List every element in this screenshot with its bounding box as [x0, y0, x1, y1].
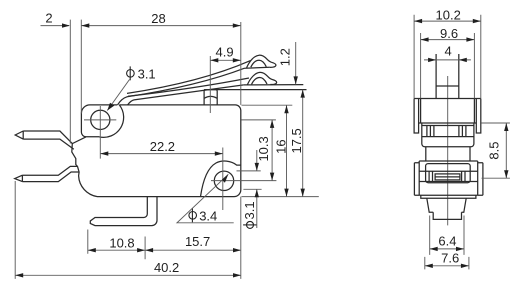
pivot center reference line L4	[242, 119, 276, 121]
hole C2 top tangent stub	[237, 170, 261, 172]
hole C2 centerlines	[211, 148, 276, 211]
dimension 8.5	[482, 123, 510, 178]
svg-text:8.5: 8.5	[487, 142, 502, 160]
plunger	[204, 90, 217, 106]
right view plunger	[436, 54, 459, 99]
lever pressed top line	[128, 78, 249, 96]
lever free bottom line	[118, 68, 245, 105]
right view block B	[433, 212, 461, 219]
dimension 4.9	[210, 22, 241, 113]
hole C2 bottom tangent stub	[243, 188, 261, 190]
right view top band	[414, 99, 481, 134]
dimension 9.6	[421, 26, 475, 98]
dimension 1.2	[278, 42, 298, 84]
right view block A	[427, 198, 466, 212]
lever tip curl upper	[245, 55, 276, 68]
dimension 16	[274, 105, 289, 196]
svg-text:3.1: 3.1	[138, 67, 156, 82]
dimension 40.2	[15, 181, 241, 279]
svg-text:4: 4	[444, 44, 451, 59]
label phi3.1 pivot	[107, 66, 155, 110]
lever top reference line L1	[244, 84, 304, 86]
svg-text:15.7: 15.7	[185, 234, 210, 249]
dimension phi3.1 hole C2	[242, 150, 259, 228]
dimension 2	[41, 11, 82, 144]
svg-text:7.6: 7.6	[441, 251, 459, 266]
dimension 7.6	[425, 251, 469, 270]
lever tip curl lower	[247, 72, 276, 85]
dimension 22.2	[100, 139, 223, 156]
svg-text:10.2: 10.2	[436, 8, 461, 23]
pivot centerlines	[84, 106, 116, 159]
svg-text:4.9: 4.9	[216, 45, 234, 60]
pivot hole	[91, 110, 110, 129]
dimension 10.8	[88, 230, 145, 260]
svg-text:1.2: 1.2	[278, 48, 293, 66]
terminal T1 upper	[15, 131, 74, 149]
dimension 10.2	[414, 8, 481, 99]
svg-text:17.5: 17.5	[289, 128, 304, 153]
svg-text:28: 28	[151, 11, 165, 26]
lower boss	[201, 161, 241, 197]
svg-text:6.4: 6.4	[438, 234, 456, 249]
right view lower band	[414, 161, 483, 195]
body bottom reference line	[242, 196, 319, 198]
svg-text:10.3: 10.3	[256, 136, 271, 161]
dimension 10.3	[256, 120, 274, 181]
dimension 15.7	[145, 234, 241, 252]
body outline	[72, 105, 241, 197]
svg-text:2: 2	[45, 11, 52, 26]
right view bottom plate	[421, 195, 476, 198]
dimension 6.4	[430, 216, 464, 255]
svg-text:10.8: 10.8	[109, 236, 134, 251]
dimension 28	[81, 11, 241, 28]
svg-text:40.2: 40.2	[154, 260, 179, 275]
hole C2	[214, 171, 233, 190]
right view centerline	[447, 76, 449, 225]
svg-text:9.6: 9.6	[440, 26, 458, 41]
label phi3.4	[177, 174, 234, 223]
right view middle band	[422, 123, 474, 147]
dimension 4	[424, 44, 471, 63]
right view neck	[426, 147, 470, 161]
dimension 17.5	[289, 90, 305, 197]
lever free top line	[127, 61, 251, 94]
svg-text:3.1: 3.1	[242, 201, 257, 219]
plunger top reference line L2	[204, 89, 306, 91]
terminal T2 lower	[15, 166, 79, 181]
terminal T3 bottom L-shaped	[90, 197, 157, 226]
pivot boss	[81, 105, 123, 137]
svg-text:3.4: 3.4	[199, 209, 217, 224]
svg-text:22.2: 22.2	[150, 139, 175, 154]
body top reference line L3	[242, 104, 293, 106]
lever pressed bottom line	[128, 85, 244, 105]
